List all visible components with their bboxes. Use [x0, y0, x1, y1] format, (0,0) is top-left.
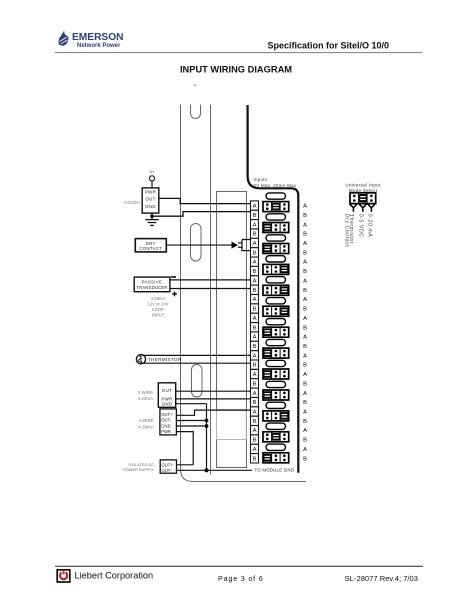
wire 3wire PWR: [176, 398, 251, 400]
svg-text:B: B: [303, 344, 307, 350]
wire transducer plus to B5: [170, 288, 251, 290]
svg-text:V+: V+: [149, 169, 155, 174]
wire 4wire GND to bus: [176, 425, 206, 427]
svg-text:PWR: PWR: [145, 190, 156, 195]
svg-text:A: A: [303, 241, 307, 247]
terminal box A11: [251, 388, 259, 397]
svg-text:PASSIVE: PASSIVE: [142, 279, 162, 284]
wire 3wire OUT: [176, 390, 251, 392]
svg-text:A: A: [303, 260, 307, 266]
svg-text:B: B: [253, 438, 257, 444]
minus polarity mark: [171, 276, 176, 278]
terminal box B9: [251, 360, 259, 369]
svg-text:A: A: [303, 410, 307, 416]
wire supply OUT- to module gnd: [177, 469, 253, 471]
thermistor symbol: [136, 355, 145, 364]
svg-text:B: B: [303, 250, 307, 256]
board slot 1 (open top U): [191, 105, 201, 119]
svg-text:A: A: [253, 316, 257, 322]
svg-text:A: A: [303, 353, 307, 359]
svg-text:A: A: [303, 428, 307, 434]
ground symbol: [145, 216, 158, 225]
wire transducer minus to A5: [170, 279, 251, 281]
0-5VDC source box PWR/OUT/GND: [142, 188, 159, 213]
svg-text:A: A: [253, 204, 257, 210]
wire thermistor to B9: [144, 362, 251, 364]
channel 7 pill connector: [266, 319, 286, 325]
svg-text:OUT+: OUT+: [161, 412, 173, 417]
svg-text:B: B: [303, 232, 307, 238]
channel 13 pill connector: [266, 444, 286, 450]
terminal box B8: [251, 341, 259, 350]
dry contact box: [135, 239, 166, 252]
wire supply OUT+: [177, 464, 194, 466]
svg-text:INPUT: INPUT: [152, 312, 165, 317]
mode select legend jumper U-SEL: [350, 193, 376, 204]
svg-text:B: B: [253, 269, 257, 275]
module board outline left edge with rounded bottom corner and bottom edge: [181, 105, 307, 482]
svg-text:Page 3 of 6: Page 3 of 6: [218, 574, 264, 583]
svg-text:A: A: [303, 222, 307, 228]
svg-text:Specification for SiteI/O 10/0: Specification for SiteI/O 10/0: [267, 40, 389, 50]
svg-text:B: B: [253, 325, 257, 331]
svg-text:B: B: [303, 381, 307, 387]
svg-text:A: A: [253, 391, 257, 397]
svg-text:B: B: [303, 419, 307, 425]
channel 9 pill connector: [266, 360, 286, 366]
svg-text:4-20mA: 4-20mA: [138, 396, 153, 401]
svg-text:A: A: [303, 335, 307, 341]
terminal box B12: [251, 416, 259, 425]
channel 6 pill connector: [266, 298, 286, 304]
terminal box A4: [251, 257, 259, 266]
dry contact plug into terminals A3/B3: [238, 240, 251, 251]
label 4 WIRE 4-20mA: [138, 418, 153, 430]
svg-text:B: B: [303, 456, 307, 462]
svg-text:0-20 mA: 0-20 mA: [366, 214, 372, 237]
wire 4wire OUT+ to A12: [176, 410, 250, 415]
svg-text:A: A: [253, 410, 257, 416]
EMERSON logo icon: [59, 31, 69, 46]
channel 2 pill connector: [266, 214, 286, 220]
plus polarity mark: [172, 292, 177, 297]
stray speck: [194, 85, 196, 87]
svg-text:LOOP: LOOP: [152, 307, 164, 312]
svg-text:OUT-: OUT-: [161, 418, 172, 423]
svg-text:A: A: [253, 297, 257, 303]
junction dot module gnd: [204, 468, 208, 472]
isolated dc power supply box: [160, 460, 176, 473]
svg-text:POWER SUPPLY: POWER SUPPLY: [123, 467, 154, 472]
label ISOLATED DC POWER SUPPLY: [123, 462, 154, 472]
channel 3 mode jumper (left): [263, 244, 289, 254]
svg-text:SL-28077 Rev.4; 7/03: SL-28077 Rev.4; 7/03: [345, 574, 418, 583]
terminal box B13: [251, 435, 259, 444]
wire dry contact with arrowhead: [166, 244, 231, 246]
svg-text:A: A: [253, 260, 257, 266]
svg-text:OUT+: OUT+: [162, 462, 174, 467]
svg-text:OUT-: OUT-: [162, 468, 173, 473]
junction dot GND: [205, 424, 209, 428]
terminal box A13: [251, 426, 259, 435]
terminal box B3: [251, 248, 259, 257]
Liebert logo: [57, 570, 70, 582]
terminal box A8: [251, 332, 259, 341]
channel 9 mode jumper (left): [263, 369, 289, 379]
svg-text:A: A: [303, 279, 307, 285]
wire OUT to terminal A1: [159, 198, 251, 203]
svg-text:CONTACT: CONTACT: [139, 246, 162, 251]
svg-text:Network Power: Network Power: [77, 43, 121, 49]
terminal box B11: [251, 398, 259, 407]
terminal housing tall rectangle: [217, 192, 247, 468]
terminal box A1: [251, 201, 259, 210]
channel 6 mode jumper (right): [263, 306, 289, 316]
svg-text:12V or 24V: 12V or 24V: [148, 301, 169, 306]
terminal box B1: [251, 210, 259, 219]
svg-text:B: B: [303, 325, 307, 331]
terminal box B14: [251, 454, 259, 463]
svg-text:B: B: [303, 288, 307, 294]
svg-text:Liebert Corporation: Liebert Corporation: [75, 571, 154, 581]
svg-text:B: B: [253, 307, 257, 313]
light gray callout rectangle: [217, 410, 247, 440]
channel 10 mode jumper (left): [263, 390, 289, 400]
svg-text:TRANSDUCER: TRANSDUCER: [136, 285, 167, 290]
svg-text:A: A: [253, 335, 257, 341]
channel 5 mode jumper (right): [263, 285, 289, 295]
channel 4 pill connector: [266, 256, 286, 262]
svg-text:B: B: [253, 363, 257, 369]
svg-text:B: B: [253, 344, 257, 350]
channel 1 pill connector: [266, 193, 286, 199]
svg-text:A: A: [253, 279, 257, 285]
svg-text:B: B: [303, 213, 307, 219]
label 4-20mA loop input: [148, 296, 169, 318]
svg-text:GND: GND: [161, 423, 170, 428]
svg-text:5V Max, 20mA Max: 5V Max, 20mA Max: [254, 183, 297, 188]
svg-text:A: A: [253, 428, 257, 434]
channel 3 pill connector: [266, 235, 286, 241]
svg-text:B: B: [303, 438, 307, 444]
terminal box B2: [251, 229, 259, 238]
terminal box B6: [251, 304, 259, 313]
svg-text:THERMISTOR: THERMISTOR: [148, 357, 182, 362]
svg-text:B: B: [253, 232, 257, 238]
terminal box A6: [251, 295, 259, 304]
channel 2 mode jumper (left): [263, 223, 289, 233]
terminal box A3: [251, 238, 259, 247]
ground bus vertical wire: [206, 404, 208, 471]
svg-text:A: A: [253, 353, 257, 359]
svg-text:EMERSON: EMERSON: [72, 32, 124, 43]
svg-text:A: A: [303, 447, 307, 453]
channel 5 pill connector: [266, 277, 286, 283]
svg-text:B: B: [253, 381, 257, 387]
terminal box A14: [251, 444, 259, 453]
svg-text:B: B: [253, 288, 257, 294]
terminal box A7: [251, 313, 259, 322]
terminal box B10: [251, 379, 259, 388]
channel 12 pill connector: [266, 423, 286, 429]
channel 1 mode jumper (mid): [263, 202, 289, 212]
footer rule: [55, 565, 423, 567]
channel 10 pill connector: [266, 381, 286, 387]
svg-text:B: B: [253, 213, 257, 219]
svg-text:INPUT WIRING DIAGRAM: INPUT WIRING DIAGRAM: [180, 64, 292, 74]
svg-text:A: A: [303, 204, 307, 210]
terminal box A5: [251, 276, 259, 285]
3 wire transmitter box OUT/PWR/GND: [158, 383, 175, 408]
svg-text:OUT: OUT: [145, 196, 155, 201]
svg-text:B: B: [253, 419, 257, 425]
channel 12 mode jumper (mid): [263, 432, 289, 442]
label 3 WIRE 4-20mA: [138, 390, 153, 401]
svg-text:A: A: [253, 241, 257, 247]
board slot 2 (obround): [191, 224, 202, 262]
svg-text:B: B: [303, 307, 307, 313]
channel 13 mode jumper (left): [263, 453, 289, 463]
label Universal Input Mode Select: [345, 183, 381, 193]
svg-text:TO MODULE GND: TO MODULE GND: [255, 467, 295, 472]
channel 11 pill connector: [266, 402, 286, 408]
board slot 3 (obround): [192, 365, 203, 398]
terminal box A9: [251, 351, 259, 360]
svg-text:A: A: [303, 391, 307, 397]
wire 4wire OUT- to bus: [176, 420, 206, 422]
terminal box A10: [251, 369, 259, 378]
channel 7 mode jumper (left): [263, 327, 289, 337]
svg-text:3 WIRE: 3 WIRE: [138, 390, 153, 395]
svg-text:0-5VDC: 0-5VDC: [124, 200, 140, 205]
svg-text:A: A: [303, 316, 307, 322]
input connector thick boundary: [248, 105, 299, 473]
svg-text:B: B: [253, 400, 257, 406]
svg-text:GND: GND: [162, 402, 173, 407]
svg-text:B: B: [253, 456, 257, 462]
svg-text:A: A: [253, 447, 257, 453]
wire 4wire PWR down to supply OUT+: [176, 432, 193, 465]
terminal box B4: [251, 266, 259, 275]
terminal box A2: [251, 220, 259, 229]
terminal box B7: [251, 323, 259, 332]
channel 11 mode jumper (right): [263, 411, 289, 421]
junction dot at ground: [150, 215, 153, 218]
svg-text:4 WIRE: 4 WIRE: [138, 418, 153, 423]
4 wire transmitter box OUT+/OUT-/GND/PWR: [160, 409, 177, 435]
svg-text:B: B: [303, 363, 307, 369]
channel 8 pill connector: [266, 339, 286, 345]
svg-text:PWR: PWR: [161, 429, 171, 434]
wire thermistor to A9: [144, 354, 251, 356]
svg-text:Inputs: Inputs: [254, 177, 268, 182]
junction dot OUT-: [205, 419, 209, 423]
svg-text:4-20mA: 4-20mA: [138, 425, 153, 430]
svg-text:B: B: [303, 269, 307, 275]
svg-text:A: A: [303, 297, 307, 303]
svg-text:OUT: OUT: [162, 388, 172, 393]
svg-text:GND: GND: [145, 204, 156, 209]
svg-text:A: A: [253, 222, 257, 228]
svg-text:B: B: [253, 250, 257, 256]
passive transducer box: [134, 277, 170, 292]
svg-text:Dry Contact: Dry Contact: [343, 214, 349, 247]
svg-text:A: A: [303, 372, 307, 378]
mode select arrows: [350, 204, 376, 212]
svg-text:Universal Input: Universal Input: [345, 183, 381, 188]
terminal box B5: [251, 285, 259, 294]
wire GND to terminal B1: [152, 212, 251, 217]
header rule: [55, 52, 422, 54]
svg-text:B: B: [303, 400, 307, 406]
svg-text:4-20mA: 4-20mA: [151, 296, 166, 301]
module board outline right edge: [210, 105, 212, 475]
wire 3wire GND to gnd bus: [176, 403, 207, 405]
channel 4 mode jumper (right): [263, 264, 289, 274]
channel 8 mode jumper (left): [263, 348, 289, 358]
terminal box A12: [251, 407, 259, 416]
svg-text:0-5 VDC: 0-5 VDC: [358, 214, 364, 238]
svg-text:A: A: [253, 372, 257, 378]
